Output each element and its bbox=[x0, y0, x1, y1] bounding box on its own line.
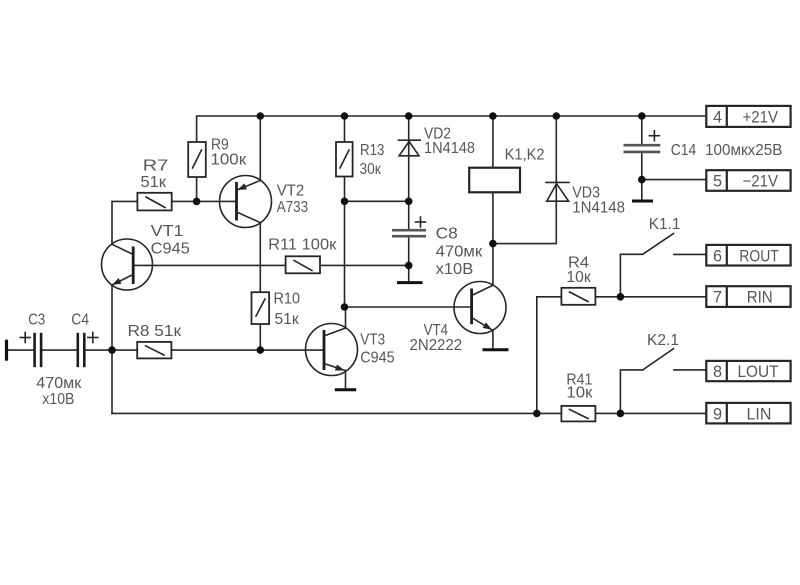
svg-text:C4: C4 bbox=[71, 312, 89, 329]
wire R10 bottom bbox=[259, 324, 261, 350]
svg-text:7: 7 bbox=[713, 289, 722, 307]
node R13/VD2 link left bbox=[341, 198, 349, 206]
svg-text:100мкх25В: 100мкх25В bbox=[705, 142, 783, 159]
svg-text:470мк: 470мк bbox=[36, 375, 81, 392]
transistor VT3 bbox=[306, 324, 395, 376]
transistor VT1 bbox=[102, 223, 190, 290]
diode VD2 bbox=[399, 126, 476, 158]
wire VT1 emitter down bbox=[111, 285, 113, 350]
node bottom/R4 branch bbox=[533, 410, 541, 418]
node bus/relay bbox=[489, 112, 497, 120]
svg-text:K2.1: K2.1 bbox=[647, 332, 679, 349]
resistor R41 bbox=[561, 372, 595, 422]
switch K1.1 bbox=[643, 216, 681, 254]
svg-text:x10В: x10В bbox=[42, 391, 74, 408]
svg-text:C14: C14 bbox=[671, 142, 697, 159]
node bus/VD2 bbox=[405, 112, 413, 120]
resistor R10 bbox=[252, 291, 301, 329]
svg-text:VT2: VT2 bbox=[277, 183, 305, 200]
svg-text:ROUT: ROUT bbox=[739, 247, 778, 265]
wire VD2 branch bbox=[408, 116, 410, 201]
svg-text:30к: 30к bbox=[360, 161, 381, 178]
wire C4 to node bbox=[85, 349, 112, 351]
svg-text:100к: 100к bbox=[211, 152, 247, 169]
wire C14 top bbox=[641, 116, 643, 145]
svg-text:8: 8 bbox=[713, 363, 722, 381]
svg-text:K1,K2: K1,K2 bbox=[505, 147, 545, 164]
wire node to R8 bbox=[112, 349, 137, 351]
svg-text:C8: C8 bbox=[436, 226, 458, 243]
wire VT4 base bbox=[345, 306, 472, 308]
wire VT2 emitter riser bbox=[259, 116, 261, 180]
node R41/K2.1/LIN bbox=[617, 410, 625, 418]
wire R41 right to LIN bbox=[595, 412, 706, 414]
wire R11 to C8 node bbox=[320, 264, 409, 266]
node bus/R13 bbox=[341, 112, 349, 120]
wire input to C3 bbox=[7, 349, 35, 351]
svg-text:9: 9 bbox=[713, 405, 722, 423]
switch K2.1 bbox=[643, 332, 679, 370]
node bus/C14 bbox=[638, 112, 646, 120]
wire R4 branch riser bbox=[537, 297, 562, 414]
connector pin 5 -21V bbox=[706, 170, 790, 191]
svg-text:6: 6 bbox=[713, 247, 722, 265]
svg-text:A733: A733 bbox=[277, 199, 308, 216]
resistor R11 bbox=[268, 237, 336, 274]
ground VT4 emitter bbox=[483, 348, 509, 351]
svg-text:+21V: +21V bbox=[743, 109, 779, 127]
wire switch K1.1 riser bbox=[620, 254, 642, 296]
connector pin 6 ROUT bbox=[706, 245, 790, 266]
connector pin 9 LIN bbox=[706, 403, 790, 424]
resistor R13 bbox=[336, 142, 384, 178]
ground VT3 emitter bbox=[335, 388, 356, 391]
ground C8 bbox=[397, 281, 423, 284]
wire R4 right to RIN bbox=[595, 296, 706, 298]
wire C14 mid to ground bbox=[641, 152, 643, 200]
wire VT2 base bbox=[197, 200, 237, 202]
resistor R8 bbox=[128, 323, 182, 358]
svg-text:R10: R10 bbox=[274, 291, 301, 308]
svg-text:C945: C945 bbox=[151, 241, 190, 258]
capacitor C4 bbox=[36, 312, 98, 409]
wire C8 bottom to ground bbox=[408, 237, 410, 281]
wire LOUT stub bbox=[674, 369, 706, 371]
svg-text:1N4148: 1N4148 bbox=[572, 200, 625, 217]
wire top supply bus bbox=[197, 116, 707, 142]
svg-text:K1.1: K1.1 bbox=[649, 216, 681, 233]
capacitor C14 bbox=[624, 131, 783, 159]
svg-text:R8 51к: R8 51к bbox=[128, 323, 182, 340]
svg-text:C945: C945 bbox=[360, 350, 394, 367]
capacitor C8 bbox=[392, 217, 482, 278]
wire R7 left + VT1 collector bbox=[112, 201, 137, 244]
svg-text:x10В: x10В bbox=[436, 261, 474, 278]
wire R9 bottom bbox=[196, 177, 198, 201]
node C14/-21V bbox=[638, 176, 646, 184]
wire VD3 branch bbox=[493, 116, 556, 244]
wire R13 top bbox=[344, 116, 346, 142]
svg-text:C3: C3 bbox=[28, 312, 45, 329]
svg-text:10к: 10к bbox=[566, 385, 592, 402]
wire node R13/VD2 link bbox=[345, 200, 409, 202]
wire R13 bottom to VT3 collector node bbox=[344, 177, 346, 308]
node R7/R9/VT2 base bbox=[193, 198, 201, 206]
input terminal bbox=[5, 340, 8, 361]
node R10/R8 wire bbox=[257, 346, 265, 354]
wire C8 top bbox=[408, 201, 410, 229]
wire VT3 emitter to ground bbox=[345, 371, 347, 389]
wire relay K1,K2 top bbox=[492, 116, 494, 168]
node bus/VD3 bbox=[553, 112, 561, 120]
svg-text:LOUT: LOUT bbox=[738, 363, 779, 381]
svg-text:5: 5 bbox=[713, 173, 722, 191]
resistor R4 bbox=[561, 255, 595, 305]
svg-text:470мк: 470мк bbox=[436, 244, 483, 261]
transistor VT4 bbox=[410, 282, 507, 355]
relay K1,K2 bbox=[469, 147, 544, 193]
svg-text:RIN: RIN bbox=[747, 289, 773, 307]
wire left branch down bbox=[111, 350, 113, 413]
svg-text:R7: R7 bbox=[143, 158, 169, 175]
svg-text:10к: 10к bbox=[566, 269, 591, 286]
svg-text:1N4148: 1N4148 bbox=[424, 140, 475, 157]
node relay/VD3/VT4 collector bbox=[489, 240, 497, 248]
node bus/VT2 bbox=[257, 112, 265, 120]
diode VD3 bbox=[546, 182, 625, 216]
transistor VT2 bbox=[220, 176, 309, 228]
svg-text:2N2222: 2N2222 bbox=[410, 337, 463, 354]
wire VT4 emitter to ground bbox=[492, 330, 494, 348]
wire relay bottom to VT4 collector bbox=[492, 192, 494, 285]
connector pin 4 +21V bbox=[706, 106, 790, 127]
svg-text:51к: 51к bbox=[141, 174, 167, 191]
svg-text:VT3: VT3 bbox=[360, 332, 385, 349]
svg-text:R11 100к: R11 100к bbox=[268, 237, 336, 254]
wire switch K2.1 riser bbox=[620, 370, 642, 414]
wire VT2 collector to R10 bbox=[259, 223, 261, 293]
connector pin 7 RIN bbox=[706, 286, 790, 307]
wire VT3 collector riser bbox=[345, 307, 347, 328]
resistor R7 bbox=[137, 158, 171, 211]
node R11/C8/ground bbox=[405, 262, 413, 270]
resistor R9 bbox=[188, 137, 246, 178]
node VD2/C8 bbox=[405, 198, 413, 206]
svg-text:R13: R13 bbox=[360, 142, 384, 159]
wire R7 right to node bbox=[172, 200, 197, 202]
wire R8 to VT3 base bbox=[171, 349, 324, 351]
wire VT1 base to R11 bbox=[133, 264, 285, 266]
svg-text:VT1: VT1 bbox=[151, 223, 184, 240]
ground C14 bbox=[632, 200, 653, 203]
wire -21V stub bbox=[642, 179, 707, 181]
svg-text:4: 4 bbox=[713, 109, 722, 127]
svg-text:51к: 51к bbox=[275, 311, 299, 328]
svg-text:−21V: −21V bbox=[743, 173, 779, 191]
wire bottom bus bbox=[112, 412, 562, 414]
wire C3 to C4 bbox=[42, 349, 78, 351]
capacitor C3 bbox=[20, 312, 45, 368]
connector pin 8 LOUT bbox=[706, 361, 790, 381]
svg-text:LIN: LIN bbox=[747, 405, 772, 423]
node VT3 collector/VT4 base bbox=[341, 303, 349, 311]
node C4/VT1 emitter bbox=[108, 346, 116, 354]
wire ROUT stub bbox=[674, 253, 706, 255]
node R4/K1.1/RIN bbox=[617, 293, 625, 301]
